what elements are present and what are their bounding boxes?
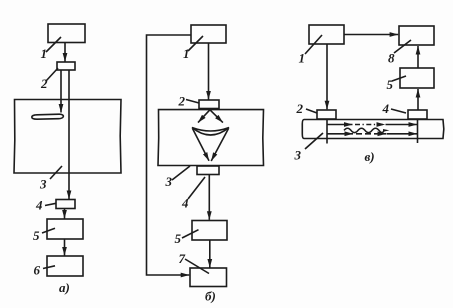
svg-text:8: 8 [388,51,395,66]
svg-text:в): в) [365,149,375,164]
svg-text:4: 4 [382,101,390,116]
svg-text:3: 3 [294,148,302,163]
svg-text:б): б) [205,289,216,304]
svg-text:4: 4 [181,196,189,211]
svg-text:2: 2 [296,101,304,116]
svg-text:5: 5 [175,231,182,246]
svg-text:1: 1 [41,46,48,61]
svg-text:3: 3 [39,177,47,192]
svg-text:3: 3 [165,174,173,189]
svg-text:1: 1 [183,46,190,61]
svg-text:2: 2 [178,94,186,109]
svg-text:5: 5 [387,77,394,92]
svg-text:2: 2 [40,76,48,91]
svg-text:1: 1 [299,51,306,66]
svg-text:5: 5 [33,228,40,243]
svg-text:а): а) [59,280,70,295]
svg-text:7: 7 [179,251,186,266]
svg-text:6: 6 [34,263,41,278]
svg-text:4: 4 [35,198,43,213]
